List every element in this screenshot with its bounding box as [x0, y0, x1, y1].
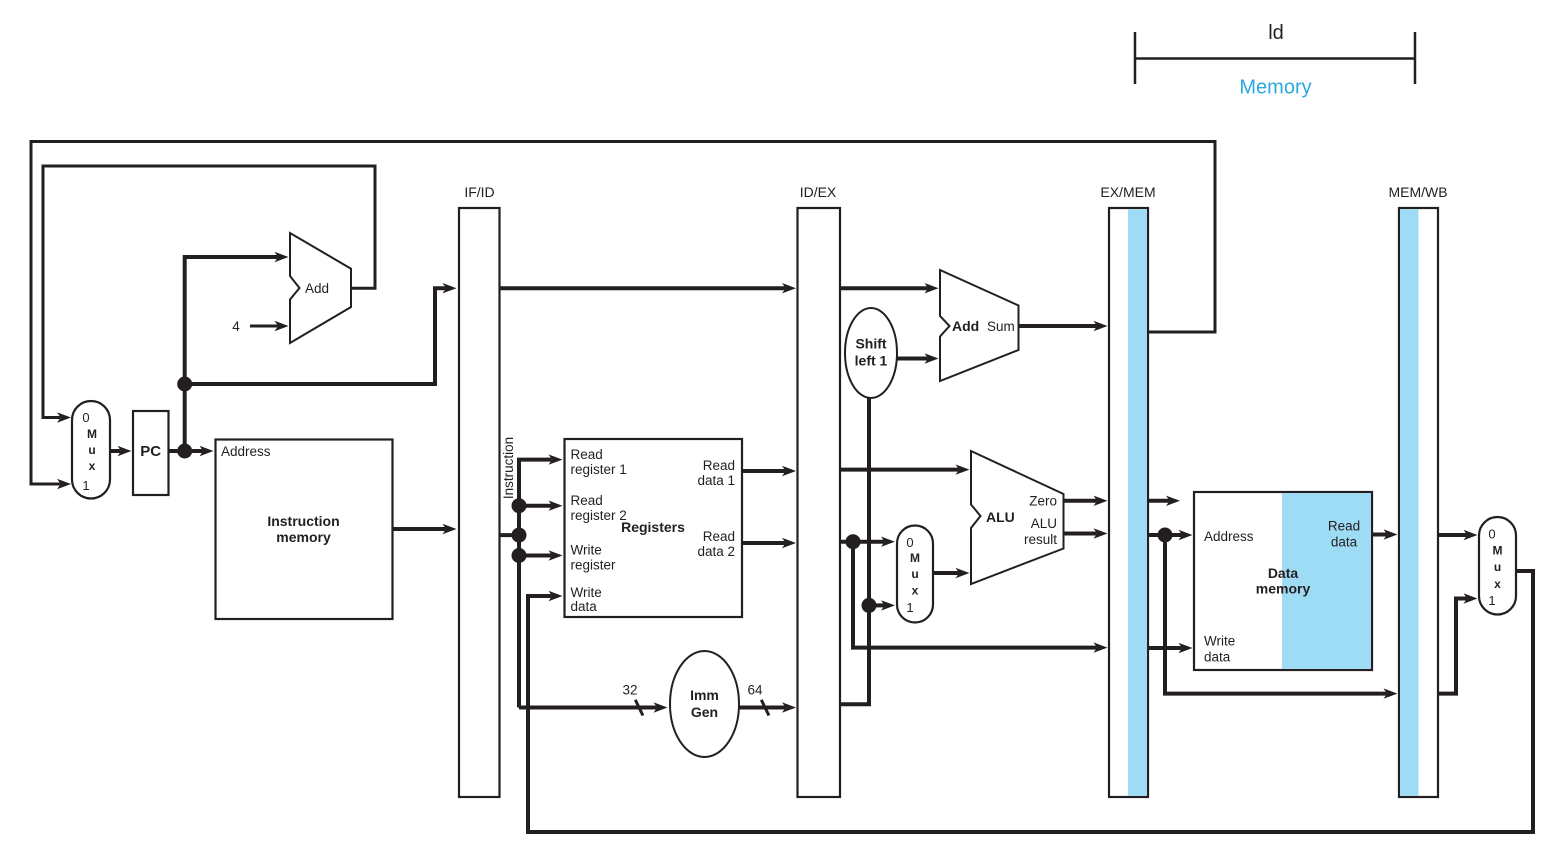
svg-text:Read: Read: [703, 529, 735, 544]
svg-text:1: 1: [906, 600, 913, 615]
svg-text:32: 32: [622, 683, 637, 698]
svg-text:result: result: [1024, 532, 1057, 547]
svg-text:Address: Address: [1204, 529, 1254, 544]
svg-text:left 1: left 1: [855, 353, 888, 369]
svg-text:Write: Write: [1204, 634, 1235, 649]
svg-text:memory: memory: [1256, 581, 1311, 597]
svg-text:Imm: Imm: [690, 687, 719, 703]
svg-text:data 1: data 1: [697, 473, 735, 488]
svg-text:1: 1: [82, 478, 89, 493]
svg-text:Sum: Sum: [987, 319, 1015, 334]
svg-text:Write: Write: [571, 543, 602, 558]
svg-text:IF/ID: IF/ID: [464, 184, 494, 200]
svg-text:Registers: Registers: [621, 519, 685, 535]
svg-text:u: u: [88, 443, 95, 457]
svg-text:64: 64: [747, 683, 763, 698]
svg-text:1: 1: [1488, 593, 1495, 608]
svg-text:Write: Write: [571, 585, 602, 600]
svg-text:u: u: [911, 567, 918, 581]
svg-text:register: register: [571, 558, 617, 573]
svg-text:Memory: Memory: [1239, 77, 1311, 99]
svg-text:Read: Read: [571, 447, 603, 462]
svg-text:x: x: [89, 459, 96, 473]
svg-text:register 1: register 1: [571, 462, 627, 477]
svg-text:0: 0: [82, 410, 89, 425]
svg-text:x: x: [912, 584, 919, 598]
svg-text:Add: Add: [952, 318, 979, 334]
svg-text:4: 4: [232, 319, 240, 334]
svg-text:ID/EX: ID/EX: [800, 184, 837, 200]
svg-text:MEM/WB: MEM/WB: [1388, 184, 1447, 200]
svg-text:memory: memory: [276, 529, 331, 545]
svg-text:Gen: Gen: [691, 704, 718, 720]
svg-text:0: 0: [1488, 527, 1495, 542]
svg-text:Instruction: Instruction: [501, 437, 516, 499]
svg-text:0: 0: [906, 535, 913, 550]
svg-text:data: data: [1331, 535, 1358, 550]
svg-text:data: data: [1204, 650, 1231, 665]
svg-text:Instruction: Instruction: [267, 513, 339, 529]
svg-text:Shift: Shift: [855, 336, 886, 352]
svg-text:ALU: ALU: [1031, 516, 1057, 531]
svg-text:Address: Address: [221, 444, 271, 459]
svg-text:M: M: [910, 551, 920, 565]
svg-text:Read: Read: [1328, 519, 1360, 534]
svg-text:Zero: Zero: [1029, 494, 1057, 509]
svg-text:data: data: [571, 599, 598, 614]
svg-text:ALU: ALU: [986, 509, 1015, 525]
svg-text:Add: Add: [305, 281, 329, 296]
svg-text:PC: PC: [140, 443, 161, 460]
svg-text:Read: Read: [571, 493, 603, 508]
svg-text:x: x: [1494, 577, 1501, 591]
svg-text:M: M: [87, 427, 97, 441]
svg-text:register 2: register 2: [571, 508, 627, 523]
svg-text:M: M: [1493, 544, 1503, 558]
svg-text:EX/MEM: EX/MEM: [1100, 184, 1155, 200]
svg-text:Data: Data: [1268, 565, 1299, 581]
svg-text:Read: Read: [703, 458, 735, 473]
svg-text:data 2: data 2: [697, 544, 735, 559]
svg-text:u: u: [1494, 560, 1501, 574]
svg-text:ld: ld: [1268, 22, 1284, 44]
